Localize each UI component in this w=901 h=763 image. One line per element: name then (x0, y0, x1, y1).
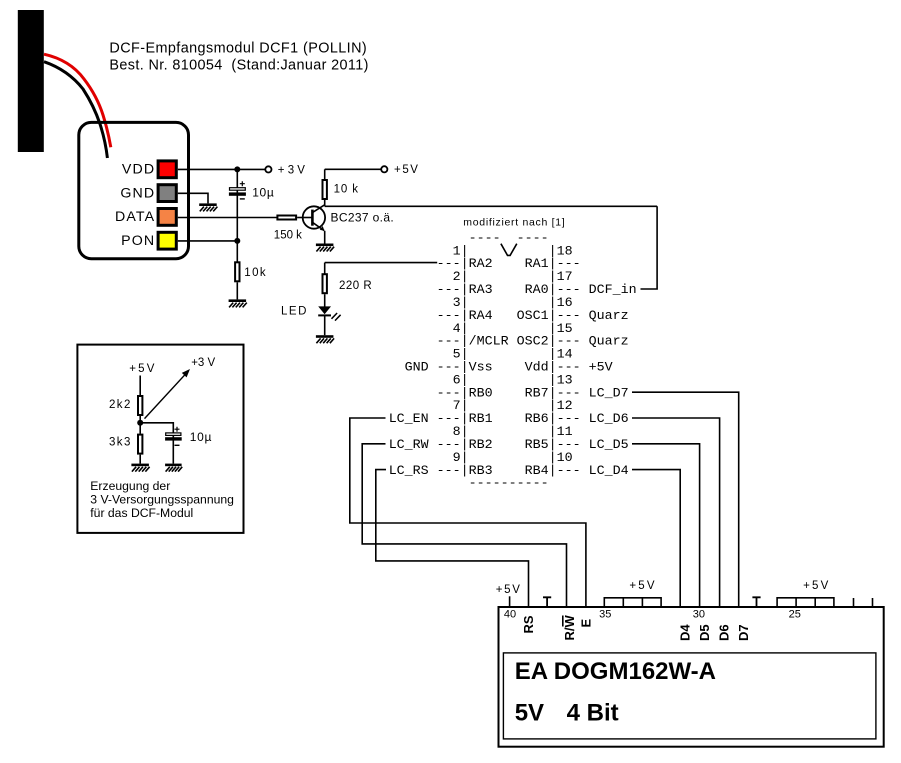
module pin square VDD (158, 161, 176, 178)
wire node to R 10k (236, 241, 238, 262)
capacitor C2 10u top plate (166, 433, 181, 436)
wire R10k top (324, 169, 326, 180)
wire emitter to ground (324, 231, 326, 244)
pin 22 tick (853, 598, 855, 606)
wire +5V pin 40 (509, 596, 511, 606)
pin 38 termination mark (543, 597, 551, 606)
svg-text:E: E (579, 619, 594, 628)
LCD outer box (499, 607, 884, 747)
terminal +3V (265, 166, 271, 172)
capacitor C2 plus sign (175, 427, 180, 432)
resistor 10k (pulldown) (235, 262, 239, 281)
wire VDD to +3V terminal (178, 168, 265, 170)
resistor 10 k (collector) (323, 180, 327, 199)
inset box (77, 345, 243, 533)
ground of C2 (165, 464, 182, 472)
transistor Q1 emitter arrow (320, 226, 325, 231)
junction node PON/10k (234, 238, 240, 244)
svg-text:+ 3 V: + 3 V (278, 164, 306, 176)
svg-text:4 Bit: 4 Bit (567, 700, 619, 727)
svg-text:10k: 10k (244, 267, 267, 279)
svg-text:D5: D5 (697, 624, 712, 641)
svg-text:RS: RS (521, 615, 536, 633)
svg-text:25: 25 (789, 608, 801, 620)
resistor 3k3 (138, 435, 142, 454)
wire R220 to LED (324, 294, 326, 306)
wire 3k3 to ground (139, 455, 141, 464)
wire PON to node (178, 240, 238, 242)
ground of emitter (316, 244, 334, 252)
LED D1 light marks (332, 313, 341, 321)
svg-text:GND: GND (120, 185, 155, 201)
ground of 3k3 (131, 464, 149, 472)
module pin square GND (158, 185, 176, 202)
wire +5V to R 2k2 (139, 376, 141, 396)
svg-text:----------: ---------- (389, 477, 549, 492)
svg-text:10µ: 10µ (252, 186, 274, 200)
wire 2k2 to node (139, 416, 141, 434)
svg-text:30: 30 (693, 608, 705, 620)
pin 27 termination mark (752, 597, 760, 606)
svg-text:EA DOGM162W-A: EA DOGM162W-A (515, 658, 716, 685)
LED D1 cathode bar (318, 314, 331, 316)
node +3V divider (137, 420, 143, 426)
svg-text:VDD: VDD (122, 162, 155, 178)
ground of GND pin (199, 203, 217, 211)
svg-text:D4: D4 (678, 624, 693, 641)
DCF module box (79, 122, 189, 258)
svg-text:DCF-Empfangsmodul DCF1 (POLLIN: DCF-Empfangsmodul DCF1 (POLLIN) (109, 40, 367, 56)
IC notch V (501, 244, 517, 256)
capacitor C1 10u top plate (230, 188, 246, 191)
LED D1 triangle (318, 306, 331, 314)
module pin square DATA (158, 209, 176, 226)
resistor 220 R (323, 274, 327, 293)
transistor Q1 collector (312, 205, 324, 213)
pin 21 tick (872, 598, 874, 606)
capacitor C2 minus sign (175, 444, 180, 446)
wire LC_EN to E (350, 418, 586, 606)
svg-text:D7: D7 (736, 624, 751, 641)
wire DATA to R 150k (178, 217, 277, 219)
svg-text:35: 35 (599, 608, 611, 620)
wire RA2 to LED branch (325, 262, 438, 264)
capacitor C1 plus sign (240, 181, 245, 186)
capacitor C1 10u bottom plate (229, 192, 246, 195)
wire LC_RS to RS (376, 470, 529, 607)
+5V bracket pins 26-23 (777, 598, 834, 606)
wire DCF_in to collector (641, 206, 658, 289)
ground of LED (316, 335, 334, 343)
wire node through C2 to ground (140, 423, 173, 464)
transistor Q1 base bar (311, 210, 314, 226)
red wire from antenna (44, 54, 111, 147)
capacitor C1 minus sign (240, 198, 245, 200)
LCD inner box (503, 653, 876, 739)
svg-text:DATA: DATA (115, 209, 155, 225)
transistor Q1 circle (303, 206, 325, 228)
+5V bracket pins 35-32 (604, 598, 661, 606)
svg-text:BC237 o.ä.: BC237 o.ä. (331, 210, 395, 224)
svg-text:150 k: 150 k (274, 230, 302, 242)
svg-text:2k2: 2k2 (109, 399, 132, 411)
capacitor C2 10u bottom plate (165, 437, 182, 440)
black wire from antenna (44, 62, 107, 158)
wire to +5V terminal (325, 168, 382, 170)
wire LED to ground (324, 315, 326, 335)
transistor Q1 emitter (312, 222, 324, 230)
svg-text:+5V: +5V (496, 584, 522, 596)
svg-text:3k3: 3k3 (109, 437, 132, 449)
wire GND pin to ground (178, 193, 208, 203)
R/W overline (562, 616, 564, 627)
svg-text:40: 40 (504, 608, 516, 620)
ground of 10k (229, 299, 247, 307)
svg-text:+5V: +5V (803, 580, 830, 592)
svg-text:5V: 5V (515, 700, 544, 727)
wire LC_D5 to D5 (632, 444, 700, 606)
resistor 150 k (horizontal) (277, 216, 296, 220)
wire to R220 (324, 263, 326, 274)
svg-text:PON: PON (121, 233, 155, 249)
svg-text:+5V: +5V (629, 580, 656, 592)
svg-text:modifiziert nach [1]: modifiziert nach [1] (463, 216, 565, 228)
svg-text:+5V: +5V (394, 164, 420, 176)
svg-text:220 R: 220 R (339, 280, 372, 292)
wire node through capacitor C1 to PON node (236, 169, 238, 241)
arrow to +3V (145, 371, 189, 418)
terminal +5V (381, 166, 387, 172)
resistor 2k2 (138, 396, 142, 415)
wire LC_D6 to D6 (632, 418, 720, 606)
svg-text:D6: D6 (717, 624, 732, 641)
svg-text:3 V-Versorgungsspannung: 3 V-Versorgungsspannung (90, 493, 234, 507)
module pin square PON (158, 232, 176, 249)
svg-text:Best. Nr. 810054 (Stand:Janua: Best. Nr. 810054 (Stand:Januar 2011) (109, 58, 368, 74)
wire LC_RW to R/W (362, 444, 566, 606)
wire LC_D4 to D4 (632, 470, 680, 607)
svg-text:LED: LED (281, 305, 308, 317)
svg-text:+3 V: +3 V (191, 357, 215, 369)
wire LC_D7 to D7 (632, 392, 739, 606)
svg-text:+5V: +5V (129, 363, 156, 375)
wire collector to DCF_in (325, 205, 657, 207)
svg-text:für das DCF-Modul: für das DCF-Modul (90, 506, 193, 520)
wire collector junction (324, 200, 326, 207)
svg-text:R/W: R/W (562, 615, 577, 641)
wire R150k to base (297, 217, 312, 219)
junction node VDD/cap (234, 166, 240, 172)
wire R10k to ground (236, 282, 238, 299)
svg-text:Erzeugung der: Erzeugung der (90, 479, 170, 493)
svg-text:10 k: 10 k (334, 183, 359, 195)
ferrite antenna bar (18, 10, 44, 152)
svg-text:10µ: 10µ (190, 430, 212, 444)
